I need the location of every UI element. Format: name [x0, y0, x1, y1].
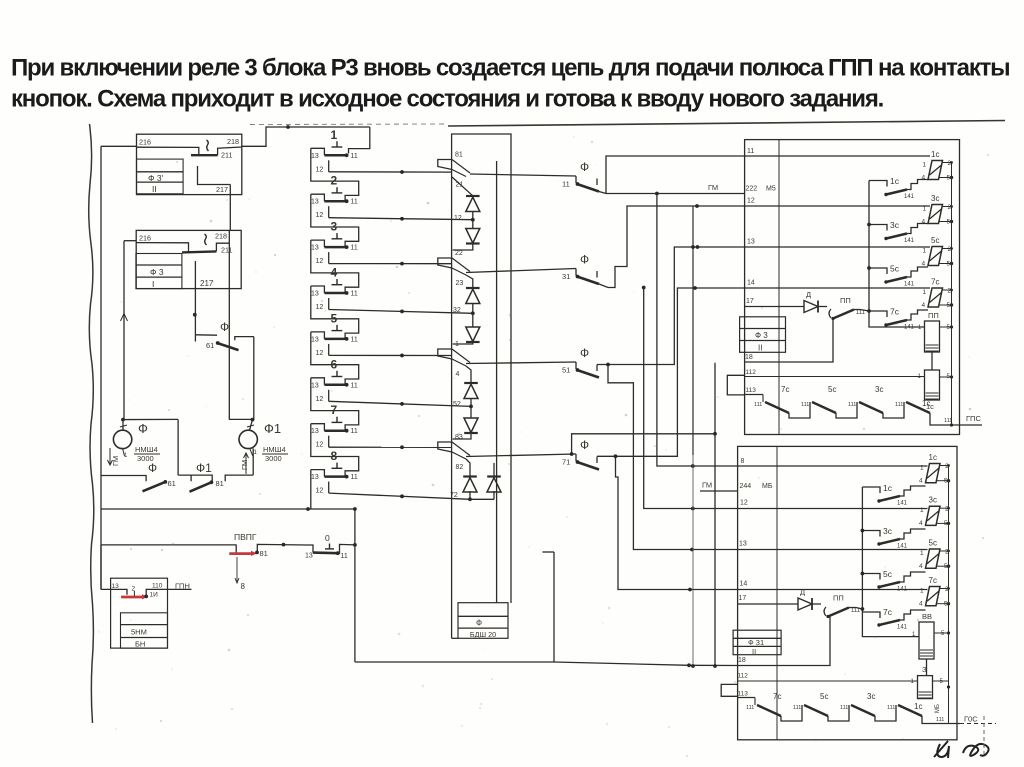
svg-text:21: 21	[456, 182, 464, 189]
svg-text:I: I	[152, 279, 154, 289]
svg-text:3: 3	[331, 220, 338, 234]
svg-text:Ф1: Ф1	[196, 461, 212, 475]
contact 3с lower	[862, 526, 925, 550]
selector tap 4	[438, 341, 470, 378]
svg-text:МБ: МБ	[935, 704, 941, 713]
svg-text:3с: 3с	[875, 385, 883, 394]
svg-text:2: 2	[331, 174, 338, 188]
push contact group 3	[311, 220, 358, 252]
wire 12 line group 4	[329, 310, 473, 314]
svg-text:8: 8	[331, 449, 338, 463]
contact Ф 71	[562, 438, 599, 470]
svg-text:4: 4	[922, 302, 926, 309]
diode Д lower	[738, 588, 821, 611]
svg-text:61: 61	[206, 341, 214, 350]
paper speckle noise	[98, 136, 989, 757]
wire 12 stub group 7	[316, 436, 329, 449]
svg-text:141: 141	[897, 625, 908, 631]
svg-text:12: 12	[316, 212, 324, 219]
svg-text:12: 12	[747, 198, 755, 205]
svg-text:11: 11	[351, 245, 358, 252]
svg-text:17: 17	[739, 595, 747, 602]
svg-text:111: 111	[936, 717, 944, 723]
wire Г0С exit	[922, 715, 996, 724]
svg-text:11: 11	[341, 553, 348, 560]
svg-text:4: 4	[922, 175, 926, 182]
wire long vertical 693	[691, 206, 695, 668]
relay coil 7с upper	[922, 278, 954, 310]
wire 12 line group 3	[329, 262, 452, 266]
svg-text:3000: 3000	[265, 454, 282, 463]
svg-text:31: 31	[562, 272, 570, 281]
svg-text:ГПС: ГПС	[966, 414, 981, 423]
svg-text:БН: БН	[135, 640, 145, 649]
svg-text:22: 22	[455, 250, 463, 257]
wire link group 1 to 2	[311, 148, 359, 201]
wire Ф51 down to lower 13	[606, 363, 738, 552]
svg-text:1: 1	[920, 588, 924, 595]
svg-text:ПП: ПП	[833, 594, 844, 603]
wire 14 upper	[745, 287, 930, 289]
svg-text:18: 18	[738, 657, 746, 664]
wire block1 entry	[101, 145, 137, 147]
wire tap line 82	[466, 454, 576, 457]
wire vertical 354	[354, 509, 356, 662]
svg-text:0: 0	[325, 533, 330, 543]
svg-text:5с: 5с	[929, 539, 937, 548]
svg-text:1с: 1с	[890, 176, 900, 186]
svg-text:6: 6	[331, 357, 338, 371]
push contact group 5	[311, 311, 358, 343]
svg-text:II: II	[152, 184, 157, 194]
push contact group 2	[311, 174, 358, 206]
wire ПВПГ row left	[101, 545, 236, 553]
svg-text:244: 244	[740, 483, 752, 490]
coil ВВ lower	[862, 609, 950, 659]
svg-text:НМШ4: НМШ4	[263, 445, 286, 454]
svg-text:13: 13	[311, 245, 319, 252]
contact 5с upper	[869, 264, 928, 288]
wire link group 7 to 8	[311, 424, 359, 477]
diode pair 82-72	[450, 459, 501, 501]
arrow 8 below ПВПГ	[235, 557, 246, 591]
wire lamp2 bottom to contact	[252, 448, 254, 475]
lamp Ф1 НМШ4-3000	[229, 418, 288, 474]
svg-text:11: 11	[351, 428, 358, 435]
svg-text:11: 11	[351, 336, 358, 343]
dashed right margin	[983, 716, 985, 754]
wire Ф11 up to 11	[606, 156, 745, 194]
svg-text:Ф: Ф	[476, 619, 482, 628]
svg-text:ГМ: ГМ	[702, 481, 712, 490]
contact 7с upper	[869, 307, 928, 331]
svg-text:13: 13	[311, 382, 319, 389]
svg-text:5с: 5с	[883, 569, 893, 579]
svg-text:111: 111	[895, 402, 903, 408]
svg-text:3с: 3с	[890, 220, 900, 230]
wire bus 509	[101, 507, 357, 511]
svg-text:217: 217	[200, 279, 214, 288]
svg-text:216: 216	[139, 138, 151, 147]
contact 7с lower	[862, 607, 925, 631]
left border edge	[89, 124, 94, 723]
relay coil 3с lower	[919, 496, 950, 528]
wire 12 stub group 4	[316, 298, 329, 311]
svg-text:3с: 3с	[883, 526, 893, 536]
svg-text:14: 14	[740, 581, 748, 588]
svg-text:51: 51	[562, 366, 570, 375]
wire contact61 to lamp2	[253, 337, 255, 420]
svg-text:7с: 7с	[781, 385, 789, 394]
push contact group 1	[311, 128, 358, 160]
wire vertical 554	[542, 552, 554, 662]
svg-text:113: 113	[746, 387, 757, 394]
wire 12 line group 2	[329, 217, 473, 221]
wire lamp1 to contact	[177, 419, 179, 475]
contact 5с lower	[862, 569, 925, 593]
svg-text:1: 1	[923, 248, 927, 255]
box Ф31-II lower	[733, 630, 781, 656]
contact 3с upper	[869, 220, 928, 244]
top border edge	[250, 121, 1005, 127]
svg-text:11: 11	[351, 474, 358, 481]
svg-text:13: 13	[311, 199, 319, 206]
svg-text:II: II	[752, 647, 756, 656]
wire tap line 23	[466, 269, 576, 273]
svg-text:4: 4	[919, 478, 923, 485]
svg-text:1с: 1с	[931, 150, 939, 159]
svg-text:НМШ4: НМШ4	[135, 445, 158, 454]
wire 12 line group 7	[329, 445, 452, 449]
svg-text:12: 12	[740, 500, 748, 507]
svg-text:5с: 5с	[890, 264, 900, 274]
relay coil 1с lower	[919, 453, 950, 485]
bus right lower	[948, 466, 950, 724]
svg-text:12: 12	[316, 166, 324, 173]
upper block entry labels	[745, 148, 756, 394]
wire contact chain upper	[867, 181, 871, 313]
svg-text:141: 141	[904, 238, 915, 244]
svg-text:Ф 3': Ф 3'	[148, 173, 164, 183]
svg-text:12: 12	[316, 488, 324, 495]
svg-text:11: 11	[351, 382, 358, 389]
svg-text:4: 4	[919, 563, 923, 570]
wire link group 5 to 6	[311, 332, 359, 385]
svg-text:3с: 3с	[931, 194, 939, 203]
wire group 8 to bus	[310, 470, 312, 509]
block БДШ 20 box	[452, 603, 508, 639]
wire Ф71 branch to 18 lines	[570, 432, 717, 456]
wire 12 stub group 1	[316, 160, 329, 173]
svg-text:11: 11	[747, 148, 754, 155]
relay coil 1с upper	[922, 150, 954, 182]
relay block Ф3'-II	[137, 134, 242, 194]
svg-text:141: 141	[897, 501, 908, 507]
contact ПП upper	[829, 296, 869, 320]
svg-text:71: 71	[562, 458, 570, 467]
wire ПВПГ to contact 0	[257, 543, 307, 553]
diode pair 21-22	[452, 177, 480, 250]
svg-text:141: 141	[904, 194, 915, 200]
svg-text:13: 13	[311, 291, 319, 298]
wire link group 4 to 5	[311, 286, 359, 339]
svg-text:12: 12	[316, 304, 324, 311]
svg-text:111: 111	[848, 402, 856, 408]
svg-text:Г0С: Г0С	[964, 715, 978, 724]
svg-text:141: 141	[904, 282, 915, 288]
svg-text:111: 111	[856, 310, 866, 316]
svg-text:222: 222	[746, 186, 758, 193]
wire 12 line group 5	[329, 354, 452, 358]
svg-text:82: 82	[456, 464, 464, 471]
wire 18 lower	[554, 617, 830, 668]
coil 1с aux upper	[918, 370, 954, 411]
svg-text:7с: 7с	[929, 576, 937, 585]
selector tap 21	[438, 152, 470, 189]
wire 12 stub group 2	[316, 206, 329, 219]
svg-text:8: 8	[741, 458, 745, 465]
svg-text:211: 211	[221, 151, 232, 160]
svg-text:Ф 3: Ф 3	[755, 331, 768, 340]
svg-text:3с: 3с	[929, 496, 937, 505]
relay coil 5с upper	[922, 236, 954, 268]
svg-text:БДШ 20: БДШ 20	[470, 630, 496, 639]
svg-text:113: 113	[738, 691, 749, 698]
svg-text:141: 141	[897, 544, 908, 550]
svg-text:5: 5	[331, 311, 338, 325]
relay block Ф3-I	[124, 230, 241, 289]
diode Д upper	[745, 290, 827, 313]
svg-text:32: 32	[453, 307, 461, 314]
svg-text:Ф: Ф	[580, 438, 589, 452]
svg-text:Ф: Ф	[580, 253, 589, 267]
svg-text:111: 111	[887, 705, 895, 711]
wire 12 line group 1	[329, 170, 452, 174]
svg-text:110: 110	[152, 583, 163, 590]
wire Ф71 to 14	[597, 286, 745, 456]
bus right upper	[950, 163, 953, 427]
wire Ф11 to 222	[599, 192, 745, 196]
contact 0	[305, 533, 357, 560]
contact 1с lower	[862, 483, 925, 507]
wire Ф11 down to lower 8	[657, 194, 738, 468]
svg-text:1с: 1с	[929, 453, 937, 462]
wire 112 upper	[745, 376, 925, 378]
svg-text:111: 111	[793, 705, 801, 711]
svg-text:217: 217	[216, 185, 228, 194]
svg-text:ПП: ПП	[928, 311, 939, 320]
svg-text:11: 11	[562, 180, 570, 189]
svg-text:II: II	[758, 344, 762, 353]
wire ПП to coil 1с	[931, 352, 933, 370]
wire link group 6 to 7	[311, 378, 359, 431]
box Ф-II upper	[740, 317, 786, 353]
wire link group 2 to 3	[311, 194, 359, 247]
svg-text:1: 1	[923, 289, 927, 296]
svg-text:Ф: Ф	[580, 160, 589, 174]
svg-text:13: 13	[311, 428, 319, 435]
rectifier block outline	[452, 134, 511, 638]
wire lamp1 feed	[121, 241, 128, 420]
svg-text:ГМ: ГМ	[240, 460, 249, 470]
svg-text:111: 111	[746, 705, 754, 711]
coil З lower	[911, 665, 951, 713]
svg-text:7с: 7с	[883, 607, 893, 617]
svg-text:81: 81	[260, 549, 268, 558]
contact 1с upper	[869, 176, 928, 200]
svg-text:112: 112	[738, 673, 749, 680]
contact chain 113 lower	[738, 692, 923, 721]
contact ПП lower	[824, 594, 862, 619]
svg-text:7: 7	[331, 403, 338, 417]
svg-text:1: 1	[920, 550, 924, 557]
wire ВВ to З	[926, 659, 928, 676]
svg-text:13: 13	[311, 153, 319, 160]
svg-text:3с: 3с	[867, 692, 875, 701]
wire 14 lower	[738, 589, 928, 591]
svg-text:81: 81	[455, 152, 463, 159]
wire block1 to contact group 1	[242, 125, 370, 153]
wire 12 stub group 3	[316, 252, 329, 265]
contact ПВПГ 81 (red)	[229, 549, 268, 558]
svg-text:М5: М5	[766, 186, 776, 193]
svg-text:72: 72	[450, 492, 458, 499]
svg-text:Ф: Ф	[138, 421, 148, 436]
wire 112 lower	[738, 680, 918, 682]
wire tap line 4	[466, 362, 576, 364]
svg-text:1с: 1с	[922, 399, 930, 408]
svg-text:1с: 1с	[883, 483, 893, 493]
contact chain 113 upper	[745, 385, 931, 418]
svg-text:12: 12	[454, 215, 462, 222]
svg-text:Ф1: Ф1	[264, 421, 281, 436]
svg-text:218: 218	[227, 137, 239, 146]
wire bottom 662	[355, 661, 554, 663]
contact Ф 61 upper	[195, 320, 253, 350]
wire 13 upper	[745, 246, 930, 248]
push contact group 7	[311, 403, 358, 435]
contact Ф 11	[562, 160, 599, 192]
svg-text:5с: 5с	[931, 236, 939, 245]
wire 13 lower	[738, 549, 928, 551]
svg-text:Ф: Ф	[580, 346, 589, 360]
handwriting mark	[934, 741, 989, 758]
svg-text:7с: 7с	[890, 307, 900, 317]
svg-text:ВВ: ВВ	[922, 612, 932, 621]
wire Ф31 to 12	[599, 204, 745, 287]
svg-text:11: 11	[351, 291, 358, 298]
selector tap 82	[438, 434, 470, 471]
push contact group 8	[311, 449, 358, 481]
wire Ф71 down to lower 14	[614, 454, 738, 591]
svg-text:Ф: Ф	[220, 320, 229, 334]
labels ГМ 222 М5	[708, 183, 776, 193]
lamp Ф НМШ4-3000	[108, 418, 179, 466]
svg-text:4: 4	[922, 219, 926, 226]
svg-text:111: 111	[840, 705, 848, 711]
svg-text:12: 12	[316, 396, 324, 403]
wire 11 upper	[745, 155, 930, 157]
coil ПП upper	[869, 311, 953, 352]
svg-text:13: 13	[305, 553, 313, 560]
svg-text:4: 4	[919, 520, 923, 527]
lower block entry labels	[738, 458, 749, 698]
svg-text:13: 13	[747, 239, 755, 246]
svg-text:81: 81	[216, 479, 224, 488]
svg-text:1: 1	[923, 162, 927, 169]
wire 18 upper	[745, 319, 833, 363]
wire block2 218 to lamp2	[228, 230, 230, 419]
push contact group 6	[311, 357, 358, 389]
svg-text:218: 218	[215, 232, 227, 241]
svg-text:ПВПГ: ПВПГ	[234, 532, 257, 542]
svg-text:13: 13	[311, 474, 319, 481]
wire left spine	[100, 146, 102, 589]
svg-text:18: 18	[745, 354, 753, 361]
svg-text:З: З	[922, 665, 927, 674]
wire left spine to ГПН	[100, 545, 102, 589]
relay coil 3с upper	[922, 194, 954, 226]
svg-text:ГМ: ГМ	[708, 183, 718, 192]
upper block outline	[745, 140, 960, 435]
wire Ф31 down to lower 12	[642, 286, 738, 511]
relay coil 7с lower	[919, 576, 950, 608]
wire tap line 21	[470, 174, 576, 176]
svg-text:111: 111	[754, 402, 762, 408]
contact Ф1 81	[190, 461, 254, 492]
svg-text:Д: Д	[806, 290, 811, 299]
svg-text:МБ: МБ	[762, 483, 773, 490]
svg-text:ПП: ПП	[840, 296, 851, 305]
wire 12 line group 8	[329, 493, 470, 499]
svg-text:При включении реле 3 блока Р3: При включении реле 3 блока Р3 вновь созд…	[11, 55, 1009, 82]
wire block2 217 down	[193, 261, 197, 342]
svg-text:Ф 3: Ф 3	[150, 267, 164, 277]
svg-text:61: 61	[168, 479, 176, 488]
wire 12 line group 6	[329, 401, 471, 406]
svg-text:14: 14	[747, 280, 755, 287]
wire 244 stub	[700, 481, 773, 492]
svg-text:Ф: Ф	[148, 461, 157, 475]
wire 12 stub group 8	[316, 482, 329, 495]
svg-text:1: 1	[331, 128, 338, 142]
wire 12 stub group 6	[316, 390, 329, 403]
wire contact chain lower	[861, 487, 865, 611]
svg-text:23: 23	[456, 280, 464, 287]
wire 8 lower	[738, 465, 928, 467]
svg-text:кнопок. Схема приходит в исход: кнопок. Схема приходит в исходное состоя…	[11, 86, 884, 113]
svg-text:211: 211	[221, 246, 232, 255]
ПВПГ label	[234, 532, 257, 542]
wire 12 stub group 5	[316, 344, 329, 357]
svg-text:5НМ: 5НМ	[131, 628, 147, 637]
svg-text:4: 4	[456, 371, 460, 378]
lower block outline	[738, 446, 957, 739]
svg-text:13: 13	[311, 336, 319, 343]
svg-text:7с: 7с	[773, 692, 781, 701]
wire block1 217 to block2	[229, 185, 231, 231]
svg-text:4: 4	[331, 266, 338, 280]
svg-text:12: 12	[316, 350, 324, 357]
svg-text:1И: 1И	[150, 592, 159, 599]
svg-text:11: 11	[351, 153, 358, 160]
contact Ф 61 lower	[101, 461, 191, 491]
svg-text:17: 17	[746, 298, 754, 305]
svg-text:141: 141	[897, 587, 908, 593]
relay coil 5с lower	[919, 539, 950, 571]
contact Ф 31	[562, 253, 599, 285]
svg-text:112: 112	[746, 369, 757, 376]
